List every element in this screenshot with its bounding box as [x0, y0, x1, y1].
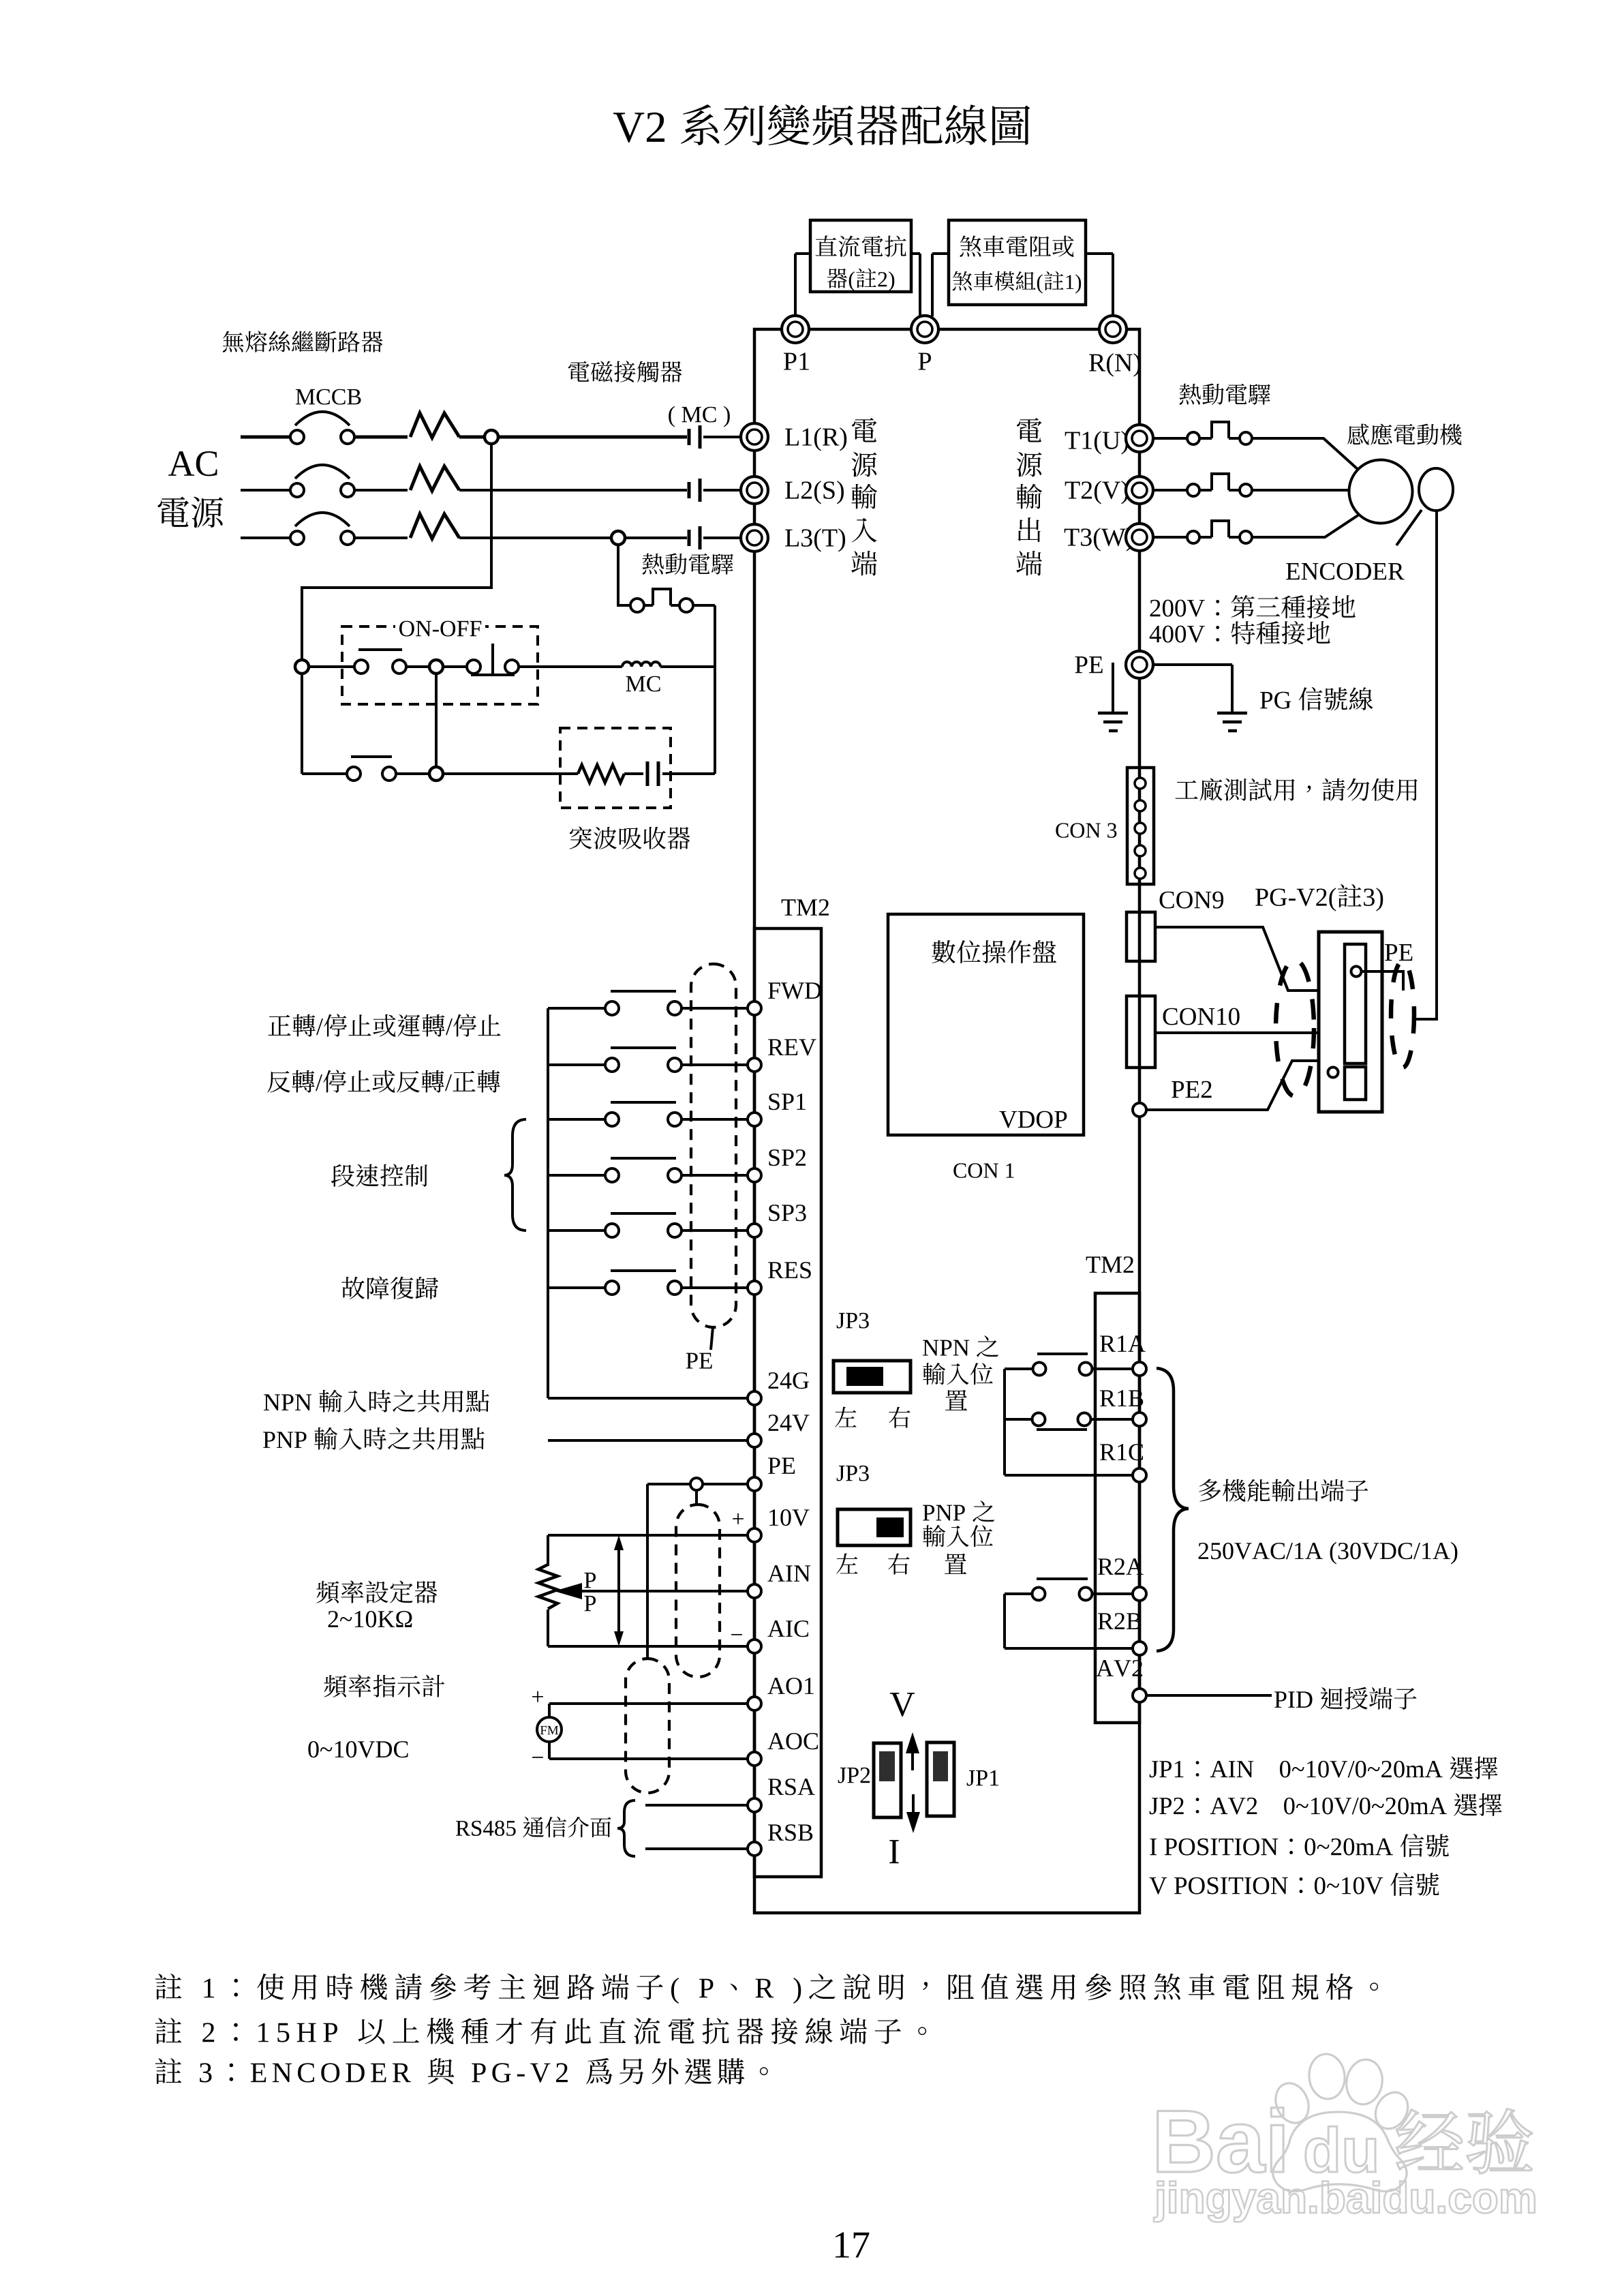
wire CON3 to CON9 — [1138, 884, 1141, 912]
terminal PE analog — [748, 1477, 761, 1491]
thermal contact bump T1 — [1199, 437, 1212, 440]
label T1(U) — [1065, 432, 1080, 449]
thermal contact bump T3 — [1199, 536, 1212, 539]
label JP1 — [967, 1770, 975, 1786]
label R2A — [1098, 1558, 1114, 1575]
label 直流電抗 — [816, 235, 837, 256]
label PE on PG-V2 — [1385, 944, 1397, 961]
wire left drop — [301, 674, 303, 774]
wire REV to terminal — [682, 1063, 748, 1066]
switch SP2 circles — [605, 1168, 619, 1182]
label L3(T) — [785, 530, 799, 547]
contact R1A bar — [1037, 1353, 1088, 1355]
switch RES bar — [611, 1269, 676, 1272]
label 電磁接觸器 — [568, 361, 590, 382]
contact R1A circles — [1033, 1363, 1046, 1376]
box DC reactor 直流電抗器 — [810, 220, 911, 292]
label 24V — [769, 1415, 778, 1431]
label AV2 — [1096, 1660, 1113, 1676]
label 多機能輸出端子 — [1199, 1479, 1221, 1502]
label 頻率指示計 — [324, 1675, 346, 1697]
breaker element L2 zigzag — [410, 466, 459, 491]
label AC — [168, 451, 194, 476]
wire R1A left — [1005, 1368, 1032, 1370]
wire L1 feed — [241, 436, 290, 439]
contact MC auxiliary circles — [347, 767, 361, 781]
contact MC auxiliary bar — [351, 755, 392, 758]
label 正轉/停止或運轉/停止 — [269, 1015, 291, 1036]
label AIN — [767, 1565, 784, 1582]
switch SP2 bar — [611, 1157, 676, 1160]
watermark baidu jingyan — [1158, 2111, 1212, 2172]
wire CON9 to CON10 — [1138, 961, 1141, 996]
potentiometer bottom lead — [547, 1610, 549, 1646]
brace multifunction outputs — [1157, 1368, 1189, 1651]
bus relay2 — [1003, 1594, 1006, 1648]
label 感應電動機 — [1347, 423, 1369, 444]
switch RES circles — [605, 1281, 619, 1295]
label 熱動電驛 output thermal relay — [1180, 384, 1201, 405]
label AO1 — [767, 1678, 784, 1694]
label 電源輸出端 vertical — [1017, 418, 1041, 442]
label JP3 lower — [837, 1466, 845, 1481]
capacitor surge — [646, 761, 649, 786]
wire control line seg2 — [406, 665, 429, 668]
cable shield dashed capsule analog-in — [676, 1505, 720, 1677]
terminal 10V — [748, 1528, 761, 1542]
label L2(S) — [785, 482, 799, 499]
label 2~10KΩ — [328, 1611, 338, 1627]
label SP1 — [769, 1093, 779, 1110]
label 置 NPN — [945, 1390, 967, 1410]
wire L3 junction drop to thermal contact — [618, 545, 630, 605]
label VDOP — [999, 1111, 1017, 1128]
breaker element L1 zigzag — [410, 413, 459, 438]
encoder shaft slash — [1396, 510, 1422, 545]
switch SP1 bar — [611, 1101, 676, 1104]
wire R(N) to brake — [1086, 252, 1113, 255]
wire P reactor brake — [911, 252, 920, 255]
terminal AO1 — [748, 1697, 761, 1710]
switch SP3 bar — [611, 1212, 676, 1215]
brace speed control — [504, 1119, 526, 1230]
switch FWD circles — [605, 1001, 619, 1015]
breaker MCCB pole L3 — [295, 513, 350, 526]
note 1 — [155, 1974, 182, 1999]
wire PE2 down — [1138, 1117, 1141, 1293]
label PNP 輸入時之共用點 — [263, 1432, 275, 1448]
potentiometer left lead — [547, 1535, 549, 1566]
wire L3 junction to MC contact — [625, 537, 687, 539]
wire L3 to junction — [459, 537, 611, 539]
wire CON10 to PE2 — [1138, 1068, 1141, 1104]
meter FM circle — [537, 1717, 562, 1742]
resistor surge — [578, 765, 624, 783]
connector CON3 pins — [1135, 778, 1146, 789]
label R1A — [1100, 1335, 1116, 1352]
terminal RSA — [748, 1798, 761, 1812]
connector PG-V2 outer box — [1319, 932, 1382, 1112]
label I POSITION — [1150, 1839, 1157, 1855]
label 故障復歸 — [341, 1277, 365, 1299]
potentiometer zigzag — [538, 1565, 557, 1609]
terminal P1 — [782, 316, 809, 343]
jumper JP3 NPN box — [833, 1361, 911, 1393]
wire R2A left — [1005, 1592, 1032, 1595]
box surge absorber dashed — [560, 728, 671, 808]
label minus AIC — [731, 1634, 742, 1635]
wire 24V — [548, 1439, 748, 1442]
wire CON9 to PG connector — [1155, 927, 1318, 991]
label RS485 通信介面 — [456, 1821, 470, 1836]
wire right bus vertical — [714, 605, 716, 774]
terminal T2 — [1126, 477, 1153, 504]
wire control line seg4 — [519, 665, 622, 668]
thermal contact circles T2 — [1187, 484, 1199, 496]
label NPN 輸入時之共用點 — [264, 1394, 280, 1410]
label R(N) — [1089, 354, 1105, 372]
contactor MC main contact L3 — [688, 530, 691, 546]
terminal AV2 — [1133, 1689, 1146, 1702]
contact R2A bar — [1037, 1577, 1088, 1580]
wire R1B right — [1091, 1418, 1133, 1421]
connector CON9 box — [1127, 912, 1155, 961]
wire R1A right — [1092, 1368, 1133, 1370]
jumper JP3 NPN knob — [846, 1367, 883, 1386]
label JP2 — [838, 1768, 846, 1783]
wire SP3 to terminal — [682, 1229, 748, 1232]
label 24G — [769, 1372, 778, 1389]
wire coil to right bus — [660, 665, 715, 668]
wire T1 to thermal contact — [1153, 437, 1187, 440]
label 無熔絲繼斷路器 — [223, 331, 244, 352]
connector CON3 box — [1127, 768, 1154, 884]
label 電源輸入端 vertical — [852, 418, 876, 442]
label AIC — [767, 1620, 784, 1637]
coil MC — [622, 662, 660, 667]
contactor MC main contact L2 — [688, 482, 691, 498]
potentiometer wiper arrow — [554, 1583, 582, 1599]
node PE2 — [1133, 1103, 1146, 1117]
terminal PE main — [1126, 651, 1153, 678]
label 右 NPN — [889, 1407, 910, 1428]
wire L1 junction drop — [302, 444, 491, 660]
label PE analog — [768, 1457, 780, 1474]
jumper JP3 PNP box — [838, 1509, 911, 1545]
wire SP2 to terminal — [682, 1174, 748, 1177]
terminal SP1 — [748, 1113, 761, 1126]
wire mid junction drop — [435, 674, 438, 774]
wire 10V — [548, 1534, 748, 1537]
thermal contact circles T1 — [1187, 432, 1199, 444]
wire T2 to thermal contact — [1153, 489, 1187, 492]
label TM2 right — [1086, 1256, 1101, 1273]
wire resistor to capacitor — [624, 772, 643, 775]
terminal R1B — [1133, 1413, 1146, 1426]
jumper JP3 PNP knob — [876, 1517, 904, 1537]
page number 17 — [836, 2233, 849, 2258]
label PG-V2(註3) — [1255, 889, 1268, 906]
label AOC — [767, 1733, 784, 1749]
wire 24G — [548, 1397, 748, 1400]
wire REV from bus — [548, 1063, 605, 1066]
ground symbol left stub — [1112, 663, 1114, 712]
label P1 — [784, 353, 797, 370]
wire PE analog — [647, 1483, 748, 1485]
wire R1C — [1005, 1474, 1133, 1477]
breaker element L3 zigzag — [410, 514, 459, 539]
wire T3 to thermal contact — [1153, 536, 1187, 539]
wire P1 to reactor — [794, 254, 797, 315]
contact R2A circles — [1032, 1588, 1045, 1601]
wire T2 to motor — [1252, 489, 1349, 492]
label 數位操作盤 — [932, 940, 955, 963]
cable boundary dashed ellipse left — [1276, 960, 1314, 1096]
wire L3 breaker to element — [354, 537, 408, 539]
wire holding branch seg2 — [396, 772, 429, 775]
label ON-OFF — [395, 614, 485, 642]
label 輸入位 NPN — [923, 1363, 945, 1385]
switch SP3 circles — [605, 1224, 619, 1237]
label 頻率設定器 — [316, 1581, 339, 1603]
terminal L1(R) — [741, 423, 768, 451]
wire AOC — [549, 1757, 748, 1760]
arrow V up — [911, 1749, 914, 1770]
wire AIC — [548, 1645, 748, 1648]
terminal AOC — [748, 1752, 761, 1766]
terminal FWD — [748, 1001, 761, 1015]
wire holding branch seg3 — [443, 772, 578, 775]
terminal 24V — [748, 1434, 761, 1447]
label R1C — [1100, 1444, 1116, 1460]
pushbutton OFF circles — [354, 660, 368, 674]
label CON9 — [1160, 892, 1174, 909]
terminal SP2 — [748, 1168, 761, 1182]
label NPN 之 — [923, 1340, 938, 1356]
switch FWD bar — [611, 990, 676, 993]
label 右 PNP — [888, 1554, 909, 1575]
note 2 — [155, 2018, 182, 2044]
label SP3 — [769, 1205, 779, 1221]
ground symbol right — [1217, 712, 1247, 715]
terminal 24G — [748, 1391, 761, 1405]
switch JP2 knob — [879, 1751, 895, 1781]
label SP2 — [769, 1149, 779, 1166]
switch JP1 knob — [933, 1751, 948, 1781]
node control line left junction — [295, 660, 309, 674]
wire RSB — [645, 1847, 748, 1850]
contact R1B circles — [1032, 1413, 1045, 1426]
label T3(W) — [1065, 529, 1080, 546]
label REV — [768, 1039, 784, 1055]
wire T3 to motor — [1252, 515, 1359, 537]
label PNP 之 — [923, 1505, 934, 1521]
node L3 junction — [611, 531, 625, 545]
label plus FM — [532, 1691, 543, 1702]
terminal L3(T) — [741, 524, 768, 552]
label PE2 — [1172, 1081, 1184, 1098]
pushbutton OFF bridge bar — [358, 648, 402, 651]
node L1 junction — [485, 430, 498, 444]
wire R2A right — [1092, 1592, 1133, 1595]
label FWD — [768, 982, 780, 999]
label CON 3 — [1056, 823, 1068, 838]
encoder ellipse — [1419, 468, 1453, 511]
label 煞車電阻或 — [960, 236, 981, 257]
label 400V grounding — [1150, 626, 1161, 642]
label ( MC ) contactor — [669, 406, 675, 427]
range arrow vertical — [617, 1542, 620, 1640]
label plus 10V — [733, 1513, 744, 1524]
switch JP2 body — [874, 1743, 901, 1817]
shield drain stub — [695, 1490, 698, 1506]
bus digital input common — [547, 1008, 549, 1398]
terminal L2(S) — [741, 477, 768, 504]
wire SP2 from bus — [548, 1174, 605, 1177]
label 熱動電驛 input thermal relay — [643, 554, 664, 575]
wire RES to terminal — [682, 1286, 748, 1289]
wire L2 to MC contact — [459, 489, 687, 492]
label ENCODER — [1286, 563, 1300, 579]
connector PG-V2 pin lower — [1328, 1068, 1338, 1078]
wire PE to right ground — [1153, 663, 1232, 666]
wire SP1 from bus — [548, 1118, 605, 1121]
label JP2 AV2 select — [1150, 1798, 1159, 1814]
switch JP1 body — [927, 1742, 954, 1816]
wire T1 to motor — [1252, 438, 1358, 470]
terminal R(N) — [1099, 316, 1127, 343]
cable shield dashed capsule inputs — [691, 964, 736, 1327]
contactor MC main contact L1 — [688, 429, 691, 445]
label PID 迴授端子 — [1274, 1691, 1287, 1708]
terminal strip TM2 left box — [754, 928, 821, 1877]
wire L2 breaker to element — [354, 489, 408, 492]
label CON 1 — [953, 1163, 966, 1178]
wire L1 MC contact to terminal — [703, 436, 741, 438]
terminal SP3 — [748, 1224, 761, 1237]
label PG 信號線 — [1260, 692, 1272, 708]
label JP1 AIN select — [1150, 1761, 1159, 1777]
label RSB — [768, 1824, 784, 1841]
wire L3 feed — [241, 537, 290, 539]
wire L1 junction to MC contact — [498, 436, 687, 439]
terminal T3 — [1126, 524, 1153, 551]
label 段速控制 — [331, 1164, 354, 1187]
label 電源 — [157, 497, 189, 527]
wire L2 feed — [241, 489, 290, 492]
wire AV2 PID — [1146, 1694, 1272, 1697]
inverter outline — [754, 329, 1139, 1913]
wire control line seg1 — [309, 665, 354, 668]
terminal AIN — [748, 1584, 761, 1598]
terminal R1A — [1133, 1362, 1146, 1376]
node holding branch junction — [429, 767, 443, 781]
label MC coil — [626, 676, 645, 691]
wire L1 breaker to element — [354, 436, 408, 439]
label PE shield inputs — [686, 1353, 698, 1369]
wire PE terminal down — [1138, 679, 1141, 768]
label minus FM — [532, 1757, 543, 1758]
wire control line seg3 — [443, 665, 467, 668]
label 250VAC/1A (30VDC/1A) — [1199, 1543, 1208, 1559]
wire encoder cable — [1415, 511, 1437, 1019]
wire PG-V2 PE — [1362, 971, 1403, 991]
wire AO1 — [549, 1702, 748, 1705]
terminal RSB — [748, 1842, 761, 1856]
terminal RES — [748, 1281, 761, 1295]
switch REV circles — [605, 1058, 619, 1072]
switch SP1 circles — [605, 1113, 619, 1126]
wire PE drain vertical — [646, 1484, 649, 1659]
label R1B — [1100, 1390, 1116, 1406]
wire thermal contact to right bus — [693, 604, 715, 607]
wire RES from bus — [548, 1286, 605, 1289]
label R2B — [1098, 1613, 1114, 1629]
motor induction circle — [1349, 460, 1413, 524]
label T2(V) — [1065, 482, 1080, 499]
wire R2B — [1005, 1647, 1133, 1650]
label RSA — [768, 1779, 784, 1795]
note 3 — [155, 2058, 182, 2084]
ground symbol left — [1098, 712, 1128, 715]
terminal P — [911, 316, 938, 343]
connector PG-V2 lower slot — [1345, 1067, 1366, 1100]
node shield drain — [690, 1478, 703, 1490]
wire SP1 to terminal — [682, 1118, 748, 1121]
label 10V — [769, 1509, 778, 1526]
label 反轉/停止或反轉/正轉 — [267, 1071, 290, 1093]
label 左 PNP — [836, 1554, 857, 1574]
label L1(R) — [785, 429, 799, 446]
label V selector — [890, 1693, 915, 1717]
breaker MCCB pole L2 — [295, 465, 350, 479]
wire PE2 to PG connector — [1146, 1061, 1318, 1110]
box ON-OFF dashed — [342, 626, 538, 704]
wire CON10 to PG connector — [1155, 1031, 1318, 1034]
terminal R2B — [1133, 1642, 1146, 1655]
label V POSITION — [1149, 1877, 1167, 1894]
wire holding branch seg1 — [302, 772, 347, 775]
box digital operator VDOP — [888, 914, 1084, 1135]
label MCCB — [296, 389, 315, 404]
label 器(註2) — [827, 269, 847, 288]
terminal REV — [748, 1058, 761, 1072]
wire L1 to junction — [459, 436, 485, 439]
thermal relay contact bump — [644, 604, 653, 607]
pushbutton ON bridge and stem — [471, 674, 515, 676]
thermal contact circles T3 — [1187, 531, 1199, 543]
cable shield dashed capsule analog-out — [626, 1659, 669, 1793]
label 輸入位 PNP — [923, 1525, 945, 1547]
label FM — [540, 1726, 547, 1734]
node control line mid junction — [429, 660, 443, 674]
title text V2 series inverter wiring diagram — [613, 112, 645, 142]
wire FWD from bus — [548, 1007, 605, 1010]
connector PG-V2 pin PE — [1351, 967, 1362, 977]
connector CON10 box — [1127, 996, 1155, 1068]
label I selector — [889, 1840, 899, 1863]
shield tail inputs — [711, 1327, 713, 1350]
label P — [919, 353, 932, 370]
terminal T1 — [1126, 425, 1153, 452]
label JP3 upper — [837, 1313, 845, 1329]
wire AIN — [582, 1590, 748, 1592]
thermal contact bump T2 — [1199, 489, 1212, 492]
label 突波吸收器 — [570, 826, 592, 849]
terminal AIC — [748, 1640, 761, 1653]
label PE — [1075, 656, 1087, 673]
breaker MCCB pole L1 — [295, 412, 350, 425]
